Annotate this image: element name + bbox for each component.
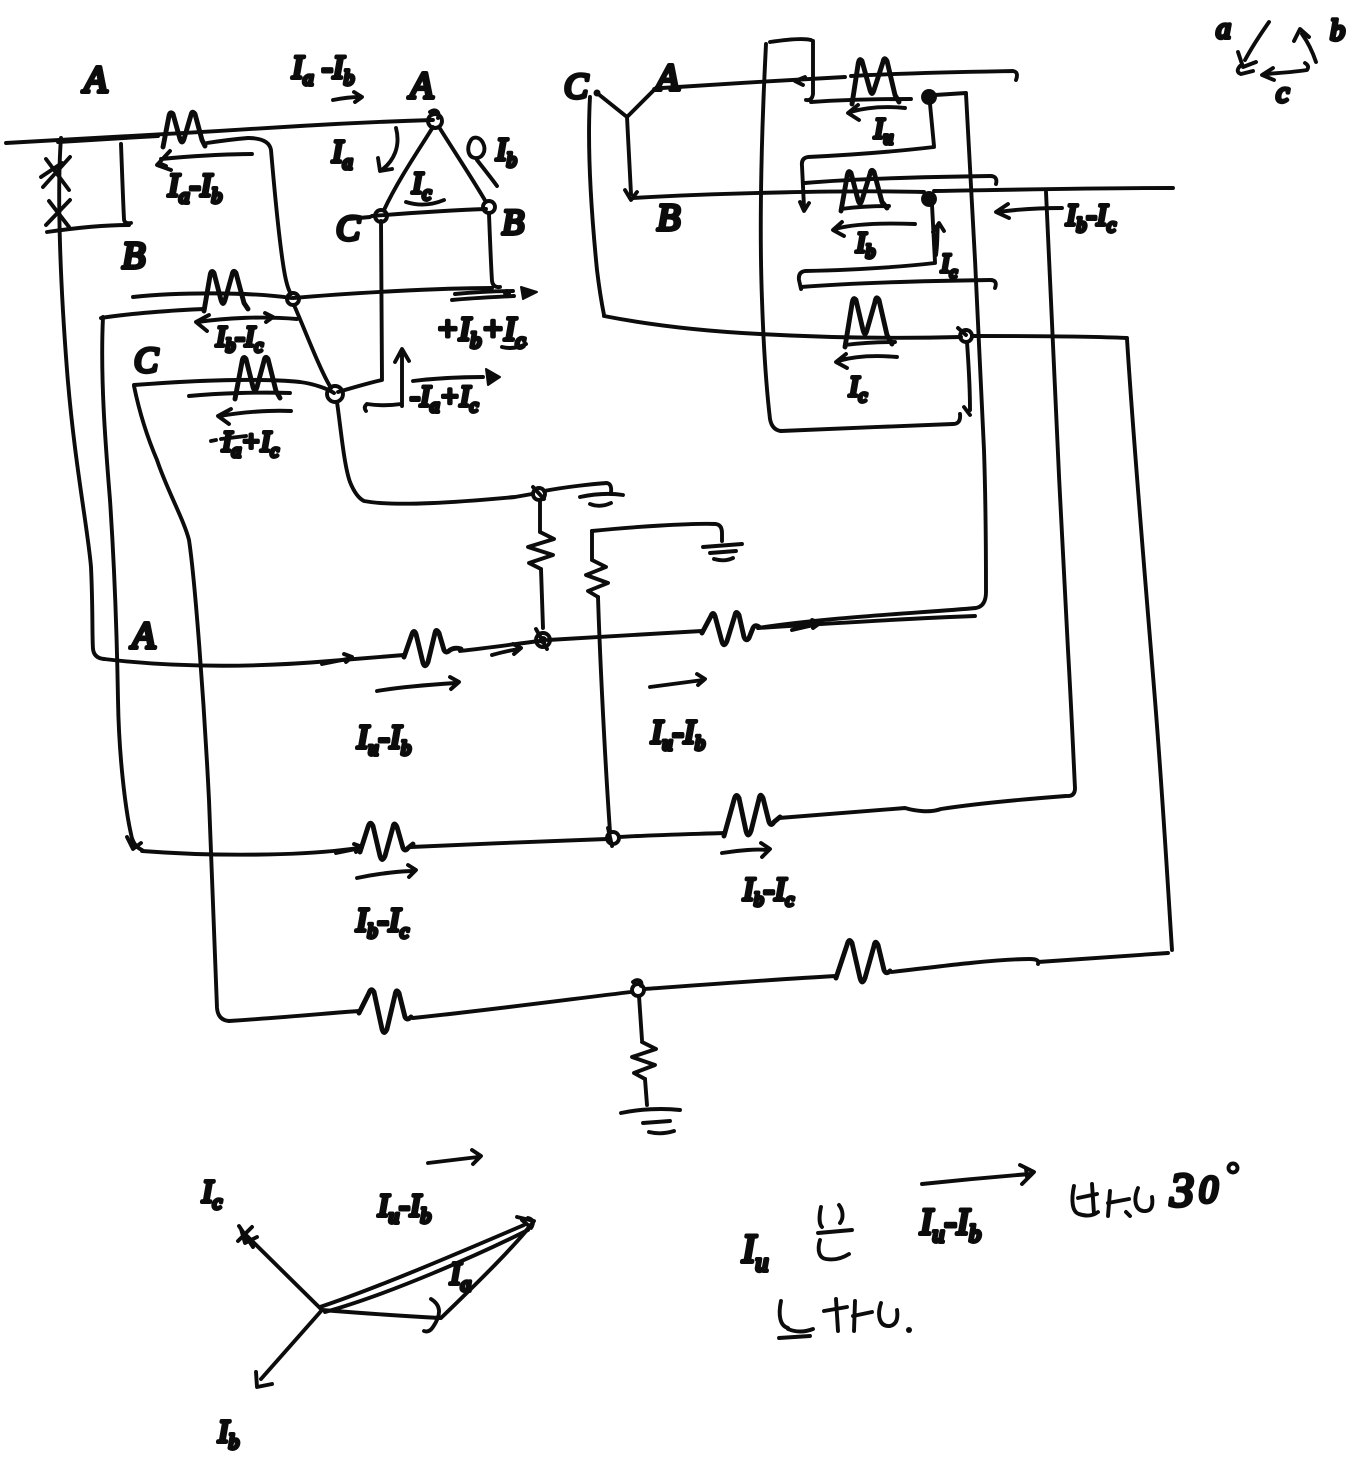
svg-text:C: C	[564, 66, 589, 106]
wire tick under X2	[47, 225, 129, 232]
wire A row mid	[460, 641, 540, 651]
wire S1 box	[800, 104, 934, 211]
arrow up (at -Ia+Ic corner)	[365, 349, 409, 411]
resistor R1 (N4 down)	[528, 500, 554, 628]
wire node NC down	[639, 996, 642, 1040]
arrow Q slant toward B	[477, 160, 497, 186]
arrow Ia (curved, near apex)	[378, 128, 398, 171]
svg-text:Ib-Ic: Ib-Ic	[1065, 197, 1116, 237]
wire A row to RA2	[548, 631, 702, 640]
arrow over Iu-Ib (statement)	[922, 1165, 1034, 1184]
resistor RB1 (Ib-Ic)	[360, 823, 413, 859]
wire A row right to V1	[758, 616, 975, 630]
arrow after RA1	[492, 644, 521, 655]
vector Ib	[256, 1310, 322, 1387]
node delta apex	[428, 114, 442, 128]
svg-text:C: C	[134, 340, 159, 380]
wire Ib-Ic row right	[779, 796, 1066, 818]
node N2 junction (A row)	[536, 633, 550, 647]
arrowhead Iu-Ib tip	[517, 1217, 534, 1232]
arrow tick on A row secondary	[795, 77, 805, 85]
svg-text:Ib-Ic: Ib-Ic	[742, 872, 794, 911]
wire S3 box bottom	[781, 414, 960, 431]
node N4 junction	[533, 488, 545, 500]
svg-text:Ic: Ic	[201, 1173, 223, 1214]
wire delta left side	[384, 127, 433, 210]
parallelogram side	[441, 1230, 527, 1318]
svg-text:B: B	[502, 202, 524, 242]
svg-text:Iu-Ib: Iu-Ib	[650, 714, 705, 755]
wire delta right side	[439, 127, 486, 202]
wire top bracket	[770, 39, 813, 100]
arrow ←Ib under S2	[833, 222, 915, 236]
korean eun (는)	[818, 1205, 852, 1259]
wire A top row	[6, 120, 433, 143]
svg-text:-Ia+Ic: -Ia+Ic	[410, 380, 479, 417]
arrow b (mini diag)	[1294, 29, 1316, 62]
wire bottom row right end	[892, 953, 1168, 972]
wire Ib-Ic row to RB2	[619, 833, 724, 837]
arrow → under RB1	[357, 865, 416, 878]
arrow under top Ia-Ib label	[333, 92, 362, 102]
svg-text:A: A	[407, 65, 434, 107]
korean neutda (늦다.)	[779, 1301, 813, 1338]
arrow tick on A row	[322, 654, 352, 664]
winding P3 (C)	[235, 357, 280, 399]
arrow ← (Ib-Ic pointer)	[996, 204, 1062, 218]
wire node P3 down to node N4	[337, 402, 532, 504]
wire P2 dip line	[101, 309, 204, 318]
winding S1	[852, 59, 899, 104]
arrow ↪ under RB2	[722, 843, 770, 857]
arrow Ia-Ib (under P1, pointing left)	[196, 313, 297, 331]
svg-text:Iu-Ib: Iu-Ib	[356, 719, 411, 760]
label Q circle near right side	[468, 138, 484, 158]
wire S2 box	[799, 205, 935, 289]
svg-text:Ic: Ic	[940, 249, 958, 282]
svg-text:A: A	[129, 615, 156, 657]
arrow c (mini diag)	[1262, 63, 1308, 80]
wire S3 top line	[801, 280, 996, 288]
svg-text:Ib: Ib	[495, 131, 517, 172]
wire N4 to ground1	[544, 483, 611, 493]
wire C row right	[972, 336, 1127, 338]
wire tick right of P1	[207, 138, 248, 143]
svg-text:c: c	[1276, 76, 1289, 109]
resistor RA1 (Ia-Ib)	[404, 631, 461, 666]
svg-text:A: A	[653, 57, 680, 99]
resistor RC2 (bottom right)	[836, 940, 890, 982]
wire P3 base	[189, 393, 290, 396]
svg-text:Iu-Ib: Iu-Ib	[919, 1202, 981, 1248]
wire left tall vertical (secondary)	[761, 44, 781, 431]
node delta B vertex	[483, 201, 495, 213]
resistor R2 (ground2 down)	[586, 531, 608, 597]
ground 3	[621, 1109, 680, 1133]
wire S1 base	[811, 99, 911, 102]
arrow ←Ic under S3	[836, 354, 897, 368]
wire C row (secondary)	[604, 316, 961, 338]
wire bottom row right	[645, 976, 836, 989]
winding S2	[841, 170, 887, 211]
svg-text:Ia+Ic: Ia+Ic	[221, 426, 279, 462]
label Ic small (right of node S2)	[933, 223, 944, 255]
vector Ia	[322, 1299, 440, 1332]
wire A row (secondary)	[662, 71, 1017, 88]
korean boda (보다)	[1072, 1184, 1098, 1216]
resistor R3 (NC down)	[632, 1042, 656, 1079]
wire left vertical 2 (C wire)	[102, 317, 142, 850]
wire V1 (node S1 down)	[758, 94, 986, 628]
wire R2 down to Ib-Ic row	[598, 597, 610, 832]
ground 1	[580, 494, 623, 506]
wire bottom row left	[229, 1011, 359, 1021]
wire S3 base	[845, 342, 895, 345]
wire W3 row	[134, 380, 334, 393]
wire A row left	[104, 655, 404, 666]
arrow -Ia+Ic (pointing right)	[413, 377, 483, 381]
svg-text:Ib-Ic: Ib-Ic	[355, 902, 409, 943]
wire C vertical (wye down)	[589, 97, 604, 315]
wire node S1 right	[935, 93, 966, 95]
wire node P2 to node P3 slant	[294, 305, 331, 388]
svg-text:Ia-Ib: Ia-Ib	[167, 168, 222, 208]
arrow a (mini diag)	[1238, 22, 1269, 74]
resistor RC1 (bottom left)	[359, 990, 411, 1033]
svg-text:B: B	[657, 197, 680, 239]
wire delta bottom	[348, 209, 486, 219]
svg-text:C: C	[336, 208, 361, 248]
svg-text:Ib: Ib	[217, 1413, 239, 1454]
wire B stub from A row	[121, 144, 131, 223]
resistor RB2 (Ib-Ic right)	[724, 795, 780, 836]
vector Ic	[238, 1226, 322, 1310]
arrow -Ia+Ic (under P3, pointing left)	[218, 409, 291, 424]
svg-text:0: 0	[1199, 1169, 1218, 1211]
node S2	[923, 193, 935, 205]
winding P1 (A)	[163, 112, 205, 147]
wire node S3 down	[964, 342, 970, 415]
arrow +Ib+Ic (row2 right, pointing right)	[455, 291, 513, 294]
arrow over Iu-Ib (phasor)	[428, 1150, 481, 1164]
node NB (Ib-Ic row)	[607, 832, 619, 844]
svg-text:a: a	[1216, 12, 1231, 45]
X mark 2	[46, 200, 70, 227]
svg-text:Ic: Ic	[411, 165, 431, 205]
node P3 junction	[327, 386, 343, 402]
svg-text:A: A	[81, 59, 108, 101]
arrow → under RA1	[377, 677, 459, 691]
wire S2 top line	[805, 176, 996, 184]
wire left vertical from A row (with X marks)	[59, 138, 104, 659]
wire V3 (C row down)	[1127, 339, 1172, 950]
svg-text:Iu: Iu	[741, 1226, 768, 1277]
svg-text:3: 3	[1169, 1164, 1194, 1217]
svg-text:b: b	[1330, 14, 1345, 47]
node S3	[960, 330, 972, 342]
wire Ib-Ic row left	[142, 848, 360, 855]
wire delta B stub down	[489, 214, 500, 287]
svg-text:Iu-Ib: Iu-Ib	[377, 1187, 431, 1228]
node wye C dot	[594, 90, 601, 97]
wire B row right	[934, 188, 1173, 191]
svg-text:Ib-Ic: Ib-Ic	[215, 321, 264, 357]
wire W2 row right to delta B	[293, 288, 492, 298]
wire ground2 branch top	[592, 524, 722, 541]
wire S2 base	[841, 206, 889, 209]
wire Ib-Ic row mid	[411, 839, 607, 847]
X mark 1	[41, 157, 70, 190]
node P2 junction	[287, 293, 299, 305]
svg-text:Ic: Ic	[848, 371, 868, 407]
resistor RA2 (Ia-Ib right)	[702, 613, 759, 645]
wire W2 row left	[133, 293, 291, 298]
node S1	[923, 91, 935, 103]
arrow ←Iu under S1	[848, 105, 905, 120]
node NC (bottom row)	[632, 984, 644, 996]
svg-text:Iu: Iu	[873, 113, 893, 149]
arrow small head under P1	[157, 151, 252, 170]
wire left vertical 3 from W3 row	[134, 386, 229, 1021]
wire bottom row mid	[413, 992, 631, 1018]
svg-text:B: B	[122, 235, 145, 277]
wire A row overdraw	[58, 136, 158, 142]
wire V2 (B row down)	[1046, 192, 1075, 796]
arrow → under RA2	[650, 674, 705, 687]
wye branches	[597, 85, 659, 200]
ground 2	[703, 544, 742, 560]
svg-text:Ia: Ia	[331, 133, 353, 174]
node delta C vertex	[375, 210, 387, 222]
winding P2 (B)	[204, 271, 248, 311]
wire B row (secondary)	[633, 191, 924, 198]
wire P1 right side down to node P2	[248, 138, 291, 294]
svg-text:Ib: Ib	[855, 227, 875, 263]
svg-text:Ia -Ib: Ia -Ib	[291, 50, 354, 90]
vector Iu-Ib (double stroke)	[320, 1225, 528, 1312]
winding S3	[845, 298, 892, 347]
wire node P3 to delta C riser	[338, 221, 382, 392]
